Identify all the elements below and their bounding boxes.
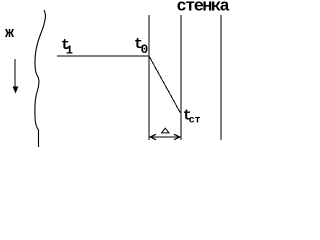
svg-text:1: 1 [66, 44, 73, 58]
wire temperature drop diagonal [149, 56, 181, 113]
wire wall outer surface (vertical line 3) [220, 15, 222, 140]
wire flow arrow (downward) [14, 59, 16, 90]
node Δ (boundary layer thickness symbol) [162, 128, 169, 133]
svg-text:ст: ст [189, 116, 201, 127]
svg-text:0: 0 [141, 42, 149, 57]
wire dimension arrow between line 1 and line 2 [151, 136, 179, 138]
svg-text:стенка: стенка [177, 0, 230, 17]
wire wavy fluid boundary [35, 10, 46, 147]
svg-text:ж: ж [5, 25, 14, 42]
wire wall inner surface (vertical line 2) [180, 15, 182, 140]
wire boundary layer edge (vertical line 1) [148, 15, 150, 140]
wire t1 temperature line [57, 55, 149, 57]
